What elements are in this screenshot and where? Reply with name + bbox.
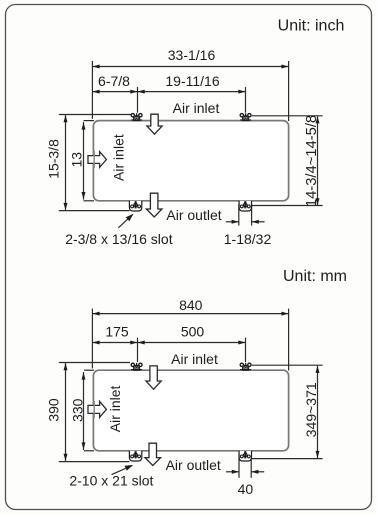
svg-text:14-3/4~14-5/8: 14-3/4~14-5/8 [304,115,320,207]
svg-text:349~371: 349~371 [303,382,319,437]
svg-text:33-1/16: 33-1/16 [168,47,216,63]
svg-text:Unit: inch: Unit: inch [278,18,345,35]
svg-text:390: 390 [46,398,62,422]
svg-text:19-11/16: 19-11/16 [165,73,219,89]
svg-text:40: 40 [238,481,254,497]
svg-text:15-3/8: 15-3/8 [46,139,62,179]
svg-text:840: 840 [179,297,203,313]
svg-text:Air inlet: Air inlet [173,100,220,116]
svg-text:500: 500 [181,324,205,340]
svg-text:2-3/8 x 13/16 slot: 2-3/8 x 13/16 slot [65,231,173,247]
svg-text:Unit: mm: Unit: mm [283,268,347,285]
svg-text:1-18/32: 1-18/32 [224,231,272,247]
svg-text:Air outlet: Air outlet [166,457,221,473]
svg-text:Air inlet: Air inlet [110,134,126,181]
svg-text:Air inlet: Air inlet [171,351,218,367]
svg-text:175: 175 [105,324,129,340]
svg-text:Air outlet: Air outlet [166,207,221,223]
svg-text:330: 330 [69,398,85,422]
svg-text:Air inlet: Air inlet [107,385,123,432]
svg-text:2-10 x 21 slot: 2-10 x 21 slot [69,472,153,488]
svg-text:13: 13 [68,152,84,168]
svg-text:6-7/8: 6-7/8 [98,73,130,89]
